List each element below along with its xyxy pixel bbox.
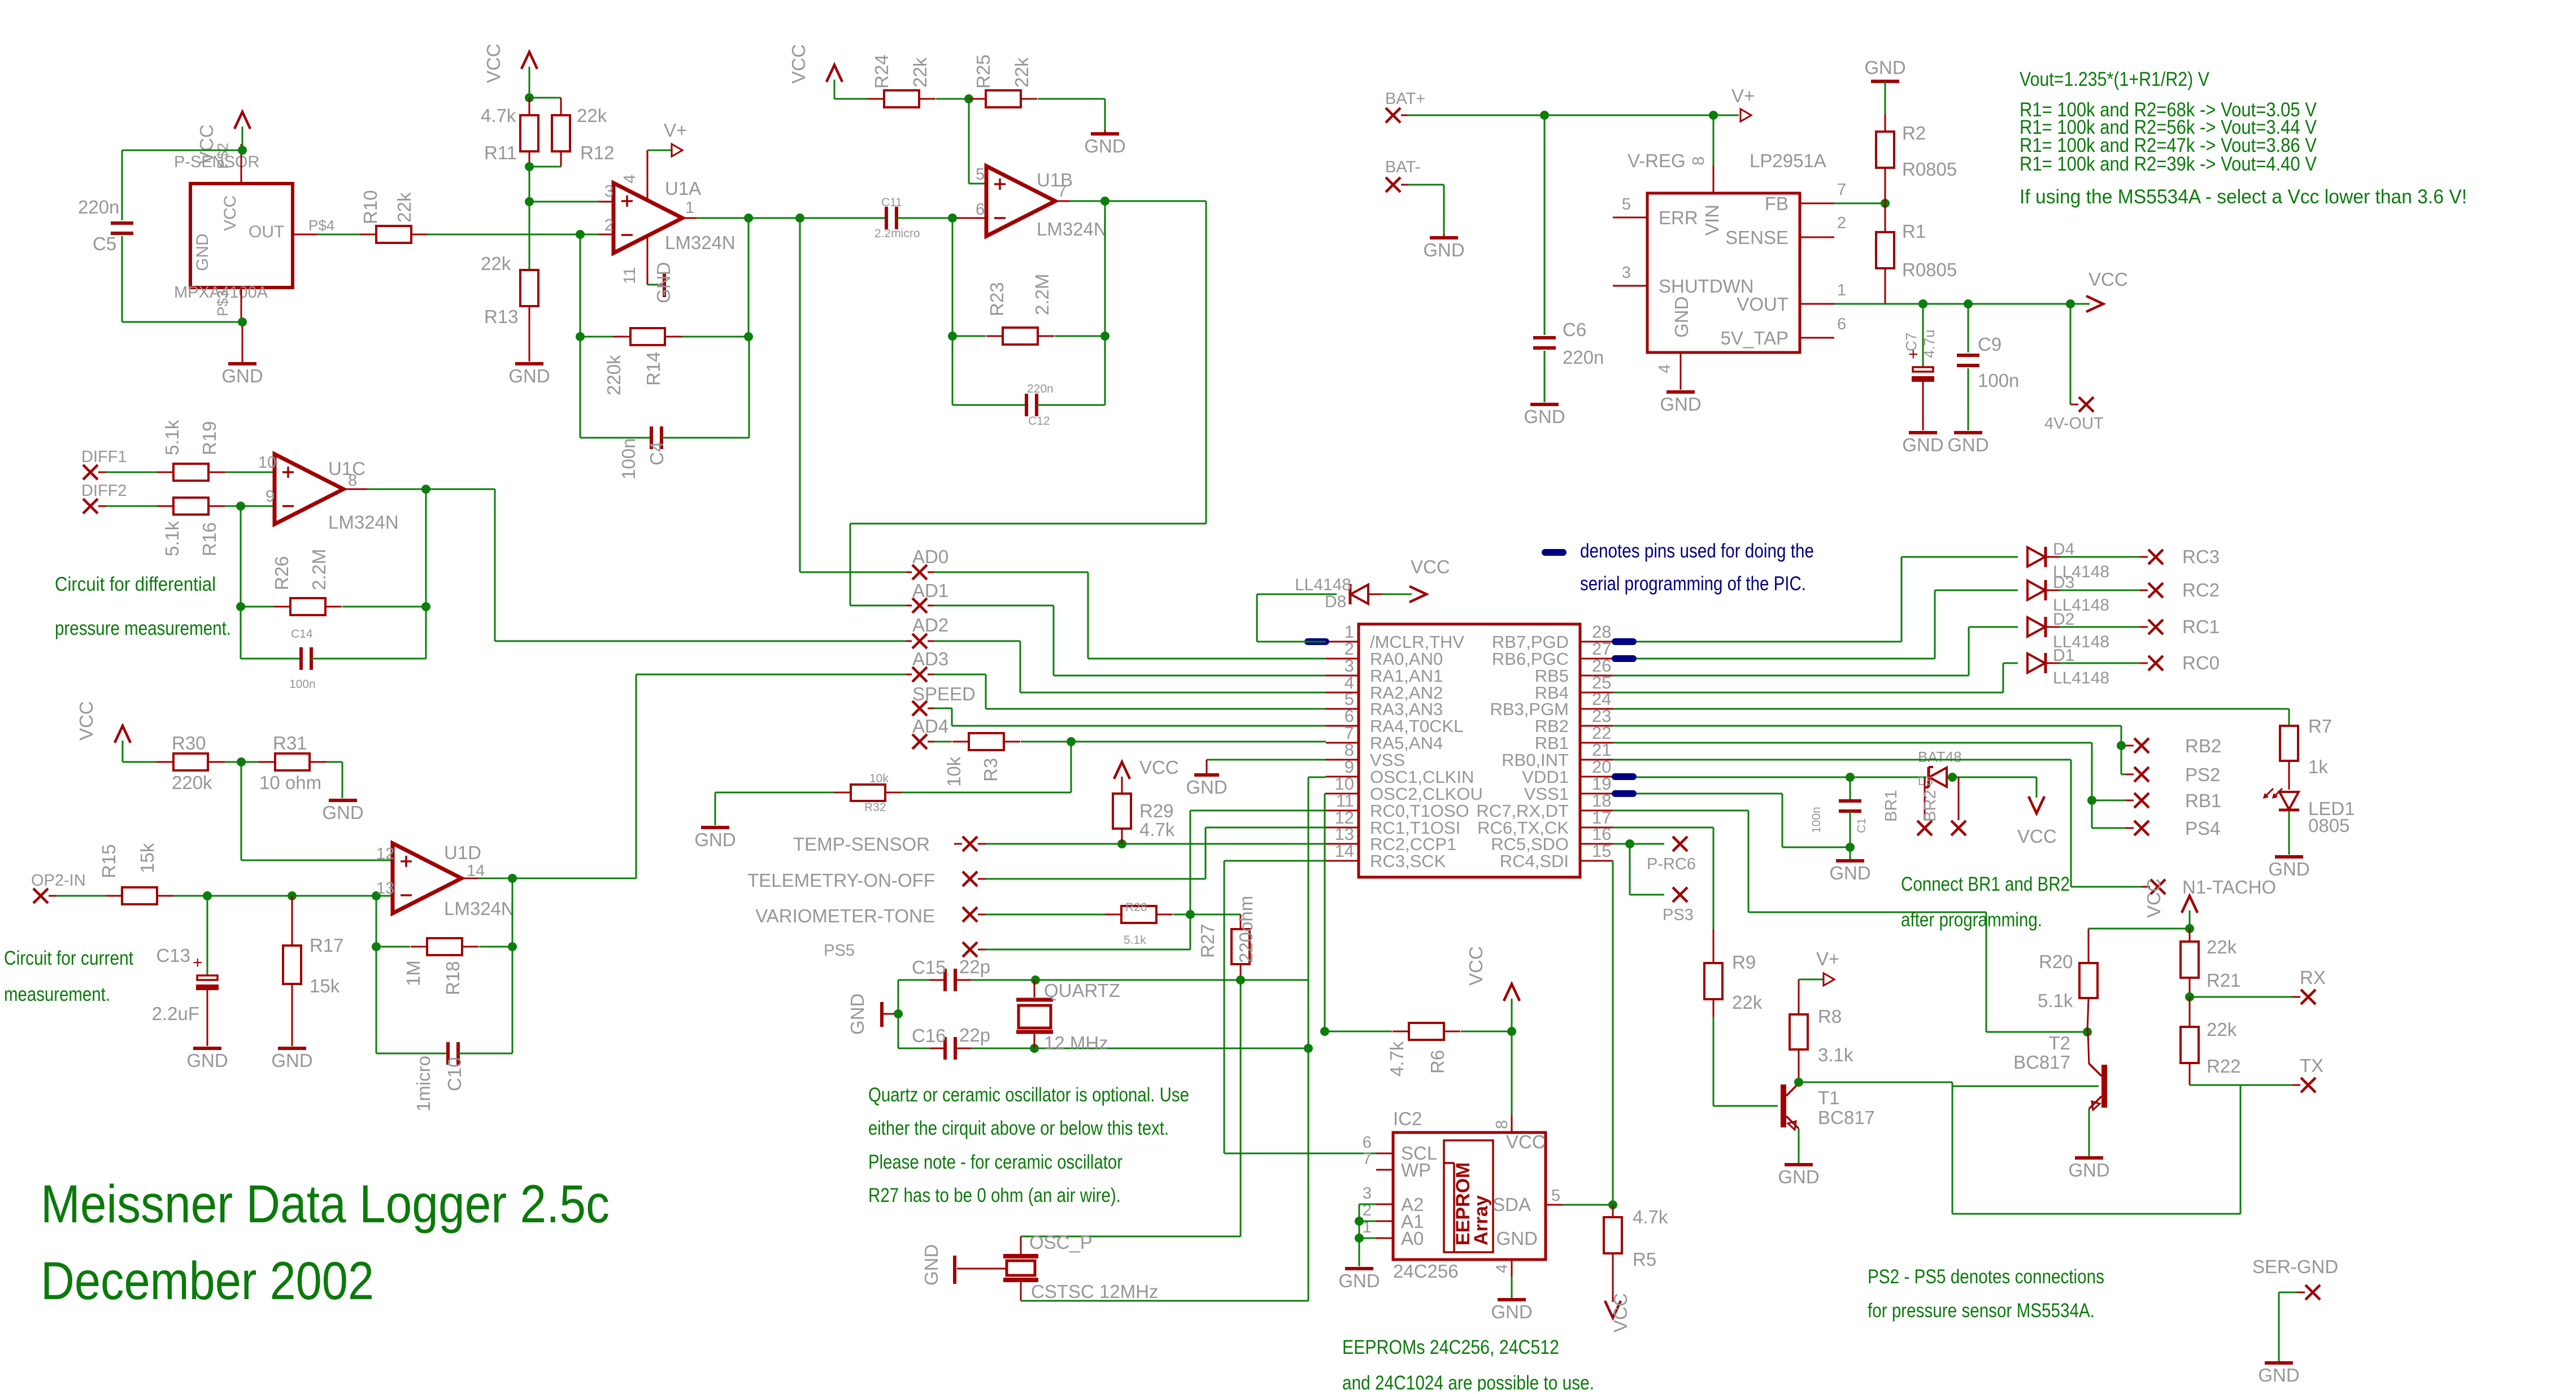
capacitor C11 2.2micro — [874, 196, 920, 240]
svg-text:C1: C1 — [1855, 818, 1868, 833]
svg-text:4.7k: 4.7k — [1633, 1206, 1668, 1227]
svg-text:VCC: VCC — [76, 701, 97, 740]
svg-text:T2: T2 — [2048, 1033, 2070, 1053]
svg-text:BAT+: BAT+ — [1385, 90, 1425, 108]
svg-text:AD0: AD0 — [912, 546, 948, 567]
programming marker pin28 — [1612, 638, 1637, 645]
svg-text:R23: R23 — [986, 282, 1007, 316]
vplus symbol U1A — [647, 120, 687, 156]
svg-text:GND: GND — [1491, 1301, 1532, 1322]
svg-text:R5: R5 — [1633, 1249, 1656, 1270]
wire VDD1 to VCC down — [1952, 777, 2037, 798]
svg-text:AD2: AD2 — [912, 615, 948, 635]
svg-text:serial programming of the PIC.: serial programming of the PIC. — [1580, 573, 1806, 595]
svg-text:U1A: U1A — [665, 178, 701, 199]
node RB2 — [2126, 735, 2221, 756]
text eeprom note 1 — [1342, 1336, 1559, 1358]
ground P-sensor — [221, 326, 263, 386]
svg-text:220ohm: 220ohm — [1235, 896, 1256, 963]
junction U1D pin13 — [372, 891, 381, 900]
svg-text:GND: GND — [1084, 136, 1125, 156]
svg-text:OUT: OUT — [249, 223, 284, 241]
svg-text:GND: GND — [1338, 1270, 1380, 1291]
ground BAT- — [1423, 234, 1464, 260]
node RC3 — [2148, 546, 2220, 567]
ground R31 — [322, 800, 363, 823]
wire pin26 to D2 — [1613, 627, 2018, 676]
svg-text:22p: 22p — [959, 956, 990, 977]
junction C13 top — [203, 891, 212, 900]
junction pin3 node — [525, 197, 534, 206]
vcc symbol R21 — [2143, 878, 2198, 929]
vcc symbol D8 — [1409, 556, 1450, 602]
svg-text:7: 7 — [1837, 181, 1846, 199]
diode D4 LL4148 — [2027, 540, 2148, 581]
ground C7 — [1902, 433, 1943, 455]
svg-text:R26: R26 — [271, 556, 292, 590]
resistor R10 22k — [360, 190, 428, 243]
svg-text:GND: GND — [1524, 406, 1565, 427]
node BR1 — [1882, 777, 1932, 835]
svg-text:R29: R29 — [1139, 800, 1174, 821]
ground R17 — [271, 1048, 312, 1071]
svg-text:4.7k: 4.7k — [1139, 819, 1175, 840]
svg-text:R27: R27 — [1197, 923, 1218, 958]
wire AD0 to pin2 — [934, 572, 1326, 659]
svg-text:VCC: VCC — [1465, 946, 1486, 986]
text connect BR note 1 — [1901, 873, 2070, 895]
junction U1B pin6 — [948, 214, 957, 223]
junction U1C pin9 — [236, 502, 245, 511]
svg-text:Vout=1.235*(1+R1/R2) V: Vout=1.235*(1+R1/R2) V — [2020, 68, 2210, 90]
node VARIOMETER-TONE — [755, 905, 986, 926]
transistor T2 BC817 — [2013, 1033, 2107, 1110]
svg-text:P$4: P$4 — [308, 217, 334, 234]
svg-text:AD3: AD3 — [912, 648, 948, 669]
diode D3 LL4148 — [2027, 573, 2148, 615]
resistor R32 10k — [715, 772, 902, 814]
wire VCC to R12 top — [529, 98, 561, 115]
wire U1D out to AD3 — [636, 674, 912, 878]
svg-text:2.2micro: 2.2micro — [874, 227, 920, 240]
junction RX — [2185, 992, 2194, 1001]
text eeprom note 2 — [1342, 1372, 1594, 1394]
resistor R11 4.7k — [481, 98, 538, 167]
wire pin9 OSC1 — [1308, 777, 1326, 1301]
resistor R1 R0805 — [1876, 203, 1957, 304]
text MS5534A Vcc note — [2020, 186, 2467, 208]
text Vout formula — [2020, 68, 2210, 90]
svg-text:7: 7 — [1058, 182, 1067, 201]
voltage regulator U LP2951A box — [1613, 150, 1846, 390]
junction R26 left — [236, 602, 245, 611]
wire SPEED to pin6 — [934, 708, 1326, 726]
capacitor C15 22p — [898, 956, 1016, 991]
svg-text:22k: 22k — [1732, 992, 1763, 1013]
junction R11 bottom — [525, 162, 534, 171]
svg-text:2.2M: 2.2M — [1032, 274, 1052, 315]
node N1-TACHO — [2142, 877, 2276, 898]
svg-text:VCC: VCC — [483, 43, 504, 83]
wire AD2 to pin4 — [934, 641, 1326, 692]
wire D8 to VCC — [1382, 594, 1412, 595]
resistor R17 15k — [283, 896, 344, 1046]
text R1R2 option 4 — [2020, 153, 2317, 175]
svg-text:GND: GND — [1496, 1228, 1538, 1249]
svg-text:VOUT: VOUT — [1737, 294, 1789, 315]
svg-text:Circuit for current: Circuit for current — [4, 947, 133, 969]
junction T1 collector — [1794, 1078, 1803, 1087]
svg-text:C13: C13 — [156, 945, 190, 966]
svg-text:GND: GND — [221, 365, 263, 386]
wire BAT+ to V+ — [1408, 115, 1739, 116]
svg-text:DIFF2: DIFF2 — [81, 482, 127, 500]
ground U1A pin11 — [647, 262, 674, 303]
led LED1 0805 — [2264, 789, 2355, 855]
svg-text:R12: R12 — [580, 142, 615, 163]
ground T1 — [1778, 1165, 1819, 1187]
junction VOUT out — [2066, 299, 2075, 308]
svg-text:V+: V+ — [1816, 948, 1839, 969]
svg-text:VCC: VCC — [788, 44, 809, 84]
ground A0A1A2 — [1338, 1269, 1380, 1291]
programming marker pin19 — [1612, 790, 1637, 797]
resistor R7 1k — [2280, 716, 2332, 790]
svg-text:3: 3 — [604, 182, 613, 201]
svg-text:LL4148: LL4148 — [2053, 669, 2109, 687]
wire pin19 VSS1 to gnd — [1637, 794, 1850, 847]
svg-text:A0: A0 — [1401, 1228, 1424, 1249]
svg-text:SPEED: SPEED — [912, 683, 976, 704]
text circuit current 2 — [4, 983, 110, 1005]
wire U1B output — [1069, 201, 1206, 202]
vcc symbol R5 down — [1605, 1293, 1631, 1332]
node AD3 — [906, 648, 948, 682]
svg-text:GND: GND — [1778, 1166, 1819, 1187]
svg-text:SER-GND: SER-GND — [2252, 1256, 2338, 1277]
wire R19 to U1C pin10 — [225, 472, 275, 473]
svg-text:R15: R15 — [98, 844, 119, 878]
text title line2 — [41, 1251, 374, 1311]
resistor R31 10 ohm — [258, 733, 342, 793]
svg-text:15: 15 — [1592, 841, 1611, 861]
svg-text:GND: GND — [186, 1050, 228, 1071]
svg-text:RX: RX — [2300, 967, 2326, 988]
svg-text:VCC: VCC — [1610, 1293, 1631, 1332]
svg-text:D3: D3 — [2053, 573, 2074, 592]
capacitor C10 1micro — [376, 1042, 512, 1112]
svg-text:AD1: AD1 — [912, 580, 948, 601]
text R1R2 option 1 — [2020, 99, 2317, 121]
svg-text:VCC: VCC — [2017, 826, 2057, 847]
resistor R22 22k — [2181, 997, 2241, 1085]
junction U1C out — [421, 485, 430, 494]
svg-text:RC3,SCK: RC3,SCK — [1370, 851, 1446, 871]
svg-text:6: 6 — [1363, 1134, 1372, 1152]
wire pin18 chain — [1613, 811, 2087, 1032]
capacitor C1 100n — [1810, 777, 1868, 859]
svg-text:4V-OUT: 4V-OUT — [2044, 415, 2104, 433]
wire A2 A1 A0 to gnd — [1359, 1204, 1376, 1266]
svg-text:TX: TX — [2300, 1055, 2323, 1076]
svg-text:GND: GND — [1186, 777, 1227, 798]
svg-text:3.1k: 3.1k — [1818, 1044, 1853, 1065]
programming marker pin20 — [1612, 773, 1637, 780]
text PS note 2 — [1868, 1300, 2095, 1322]
junction BAT48 right — [1948, 773, 1957, 782]
svg-text:5: 5 — [976, 165, 985, 184]
node TELEMETRY-ON-OFF — [747, 870, 986, 891]
wire pin13 RC2 to temp — [978, 843, 1326, 845]
svg-text:100n: 100n — [289, 678, 316, 691]
svg-text:BR1: BR1 — [1882, 790, 1900, 822]
svg-text:SDA: SDA — [1492, 1194, 1531, 1215]
svg-text:GND: GND — [694, 829, 736, 850]
svg-text:R0805: R0805 — [1902, 259, 1957, 280]
wire divider to pin3 node — [529, 167, 530, 202]
svg-text:U1D: U1D — [444, 842, 481, 863]
vcc symbol VDD1 down — [2017, 796, 2057, 847]
wire U1C out to AD2 — [495, 489, 906, 641]
svg-text:GND: GND — [1864, 57, 1905, 78]
svg-text:8: 8 — [1690, 156, 1708, 165]
svg-text:R19: R19 — [199, 421, 220, 455]
svg-text:RB2: RB2 — [2185, 735, 2221, 756]
vplus symbol V-REG — [1731, 85, 1755, 121]
junction R17 top — [288, 891, 297, 900]
ground C9 — [1947, 433, 1988, 455]
node AD0 — [906, 546, 948, 580]
wire pin25 to D1 — [1613, 663, 2018, 692]
node PS2 — [2126, 764, 2220, 785]
crystal QUARTZ 12MHz — [1016, 980, 1120, 1053]
svg-text:22k: 22k — [910, 57, 930, 88]
junction quartz bottom — [1030, 1044, 1039, 1053]
eeprom IC2 24C256 box — [1363, 1108, 1563, 1282]
resistor R15 15k — [56, 843, 173, 904]
op-amp U1C LM324N — [258, 454, 399, 533]
ground LED1 — [2268, 857, 2309, 879]
svg-text:RC3: RC3 — [2182, 546, 2220, 567]
ground pin8 — [1186, 775, 1227, 798]
junction P$3 — [238, 317, 247, 326]
svg-text:U1B: U1B — [1037, 169, 1073, 190]
junction FB — [1881, 199, 1890, 208]
junction OSC1 C16 — [1304, 1044, 1313, 1053]
wire R15 to U1D pin13 — [173, 895, 393, 897]
svg-text:5.1k: 5.1k — [162, 420, 182, 455]
wire T1 emitter to gnd — [1798, 1129, 1800, 1163]
svg-text:GND: GND — [1947, 434, 1988, 455]
svg-text:Circuit for differential: Circuit for differential — [55, 573, 216, 595]
junction R14 right — [744, 332, 753, 341]
resistor R8 3.1k — [1790, 979, 1853, 1082]
wire AD1 to pin3 — [934, 605, 1326, 676]
svg-text:RB1: RB1 — [2185, 790, 2221, 811]
svg-text:R32: R32 — [864, 801, 886, 814]
svg-text:22p: 22p — [959, 1025, 990, 1045]
resistor R19 5.1k — [106, 420, 225, 481]
wire P$2 to C5 — [122, 150, 242, 220]
text title line1 — [41, 1174, 610, 1234]
node OP2-IN — [31, 872, 86, 903]
capacitor C12 220n — [952, 336, 1105, 428]
junction quartz top — [1031, 975, 1040, 984]
resistor R5 4.7k — [1604, 1205, 1668, 1302]
svg-text:220k: 220k — [603, 355, 624, 395]
wire pin20 VDD1 — [1637, 777, 1926, 778]
junction T2 collector R20 — [2083, 1027, 2092, 1036]
svg-text:LM324N: LM324N — [1037, 219, 1107, 239]
wire gnd vertical C15 C16 — [898, 980, 899, 1048]
wire pin11 RC0 — [1190, 811, 1326, 949]
svg-text:R13: R13 — [484, 306, 519, 327]
svg-text:R14: R14 — [643, 351, 664, 386]
ground R2 top — [1864, 57, 1905, 114]
svg-text:2: 2 — [604, 216, 613, 234]
wire pin10 OSC2 — [1325, 794, 1326, 1031]
programming marker pin27 — [1612, 655, 1637, 662]
svg-text:U1C: U1C — [328, 458, 365, 479]
svg-text:VCC: VCC — [196, 124, 217, 164]
capacitor C9 100n — [1957, 304, 2019, 430]
svg-text:GND: GND — [1671, 297, 1692, 338]
svg-text:N1-TACHO: N1-TACHO — [2182, 877, 2276, 898]
wire RX — [2190, 996, 2292, 998]
svg-text:1micro: 1micro — [413, 1056, 434, 1112]
svg-text:13: 13 — [376, 879, 394, 898]
svg-text:R1= 100k and R2=39k -> Vout=: R1= 100k and R2=39k -> Vout=4.40 V — [2020, 153, 2317, 175]
junction R26 right — [421, 602, 430, 611]
svg-text:R9: R9 — [1732, 952, 1756, 973]
svg-text:1: 1 — [685, 199, 694, 217]
junction R3 out — [1067, 737, 1076, 746]
wire pin21 to N1-TACHO — [1613, 760, 2142, 887]
svg-text:LM324N: LM324N — [665, 232, 736, 253]
text R1R2 option 2 — [2020, 116, 2317, 138]
svg-text:T1: T1 — [1818, 1087, 1840, 1108]
wire U1B out to R23 — [1104, 201, 1106, 336]
wire R24 to R25 — [936, 98, 969, 100]
resonator OSC_P CSTSC 12MHz — [1003, 1232, 1159, 1302]
wire R3 to pin7 — [1021, 741, 1326, 743]
text osc note 2 — [868, 1117, 1169, 1139]
svg-text:R0805: R0805 — [1902, 159, 1957, 180]
resistor R20 5.1k — [2038, 929, 2098, 1032]
wire R24R25 to U1B pin5 — [969, 99, 986, 184]
wire quartz rail top — [1016, 979, 1308, 981]
svg-text:LM324N: LM324N — [328, 512, 399, 533]
svg-text:5.1k: 5.1k — [162, 521, 182, 556]
svg-text:LL4148: LL4148 — [1295, 576, 1351, 594]
svg-text:VCC: VCC — [2143, 878, 2164, 918]
text circuit current 1 — [4, 947, 133, 969]
svg-text:R30: R30 — [172, 733, 206, 753]
wire U1C out vertical — [425, 489, 427, 607]
node DIFF2 — [81, 482, 127, 513]
junction R18 right — [508, 942, 517, 951]
svg-text:R28: R28 — [1125, 901, 1147, 914]
svg-text:either the cirquit above or be: either the cirquit above or below this t… — [868, 1117, 1169, 1139]
svg-text:TELEMETRY-ON-OFF: TELEMETRY-ON-OFF — [747, 870, 935, 891]
svg-text:C12: C12 — [1028, 415, 1050, 428]
svg-text:FB: FB — [1765, 193, 1789, 214]
junction pin16 — [1625, 839, 1634, 848]
wire R10 to U1A pin2 — [428, 234, 613, 236]
wire R6 to IC2 vcc — [1511, 1031, 1513, 1116]
resistor R12 22k — [552, 105, 615, 167]
wire R9 to T1 base — [1713, 1105, 1778, 1107]
svg-text:EEPROMs 24C256, 24C512: EEPROMs 24C256, 24C512 — [1342, 1336, 1559, 1358]
svg-text:100n: 100n — [618, 438, 639, 480]
junction VOUT C7 — [1918, 299, 1927, 308]
wire U1B out to AD1 — [850, 201, 1206, 605]
resistor R9 22k — [1704, 929, 1763, 1106]
svg-text:15k: 15k — [137, 843, 158, 873]
svg-text:GND: GND — [653, 262, 674, 303]
svg-text:If using the MS5534A - select: If using the MS5534A - select a Vcc lowe… — [2020, 186, 2467, 208]
svg-text:GND: GND — [1423, 239, 1464, 260]
svg-text:OP2-IN: OP2-IN — [31, 872, 86, 890]
junction R6 left OSC2 — [1320, 1027, 1329, 1036]
svg-text:10k: 10k — [943, 756, 964, 787]
svg-text:R1: R1 — [1902, 221, 1926, 242]
text PS note 1 — [1868, 1266, 2104, 1288]
svg-text:R6: R6 — [1427, 1050, 1448, 1074]
svg-text:5V_TAP: 5V_TAP — [1721, 328, 1789, 348]
wire U1D out to fb — [512, 878, 514, 1053]
junction RB1 — [2087, 796, 2096, 805]
svg-text:R2: R2 — [1902, 123, 1926, 143]
svg-text:LP2951A: LP2951A — [1750, 150, 1826, 171]
junction C6 top — [1540, 111, 1549, 120]
ground OSC_P — [921, 1244, 1006, 1286]
ground R32 — [694, 827, 736, 850]
op-amp U1A LM324N — [599, 150, 736, 285]
svg-text:TEMP-SENSOR: TEMP-SENSOR — [793, 834, 930, 855]
node RC0 — [2148, 652, 2220, 673]
junction VOUT C9 — [1964, 299, 1973, 308]
op-amp U1B LM324N — [976, 165, 1107, 239]
junction P$2 — [238, 146, 247, 155]
svg-text:VCC: VCC — [2088, 269, 2128, 290]
svg-text:GND: GND — [847, 994, 868, 1035]
text legend line1 — [1580, 540, 1814, 562]
svg-text:C5: C5 — [93, 233, 116, 254]
wire VCC to R20 — [2088, 928, 2190, 930]
svg-text:DIFF1: DIFF1 — [81, 448, 127, 466]
svg-text:WP: WP — [1401, 1160, 1431, 1180]
wire U1B fb left vertical — [952, 218, 954, 405]
svg-text:22k: 22k — [481, 253, 511, 274]
svg-text:4.7k: 4.7k — [1386, 1041, 1407, 1077]
svg-text:RC1: RC1 — [2182, 616, 2220, 637]
svg-text:22k: 22k — [394, 192, 415, 223]
junction A0 — [1355, 1234, 1364, 1243]
microcontroller PIC 28-pin box — [1326, 622, 1613, 877]
capacitor C14 100n — [241, 607, 426, 691]
wire fb vertical left U1D — [376, 896, 377, 1053]
svg-text:220n: 220n — [1563, 347, 1604, 368]
svg-text:5: 5 — [1622, 195, 1631, 214]
text legend line2 — [1580, 573, 1806, 595]
wire pin15 to SDA — [1563, 861, 1613, 1205]
svg-text:220n: 220n — [1027, 382, 1054, 395]
wire U1C output — [367, 489, 495, 490]
junction R18 left — [372, 942, 381, 951]
wire T2 emitter to gnd — [2088, 1109, 2090, 1156]
junction VCC R21 — [2185, 924, 2194, 933]
